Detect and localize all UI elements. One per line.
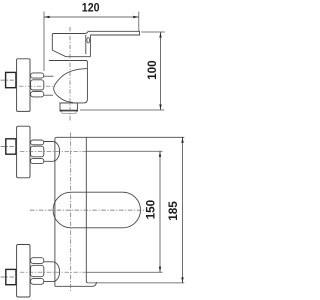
side view: nut axis center line <box>19 85 55 87</box>
front view: 185 bottom extension line <box>88 282 184 284</box>
side view: inlet tube upper edge <box>44 75 54 77</box>
front view: bottom wall flange <box>17 245 30 298</box>
front view: bottom stub axis center line <box>1 276 18 278</box>
side view: lever bar <box>88 31 140 35</box>
side view: wall pipe stub <box>6 72 16 87</box>
side view: outlet spout <box>60 103 78 111</box>
side view: aerator inset <box>62 111 76 113</box>
side view: union nut band 1 <box>31 73 44 78</box>
side view: cartridge housing <box>49 61 88 103</box>
front view: body column bottom edge <box>55 282 97 286</box>
side view: wall flange escutcheon <box>17 59 30 112</box>
front view: top connection axis / 150 extension <box>20 150 163 152</box>
side view: inlet tube lower edge <box>44 94 53 96</box>
extension line bottom of dim 100 <box>80 109 164 111</box>
front view: capsule axis center line <box>30 209 147 211</box>
front view: top wall flange <box>17 126 30 178</box>
front view: top inlet boss arc <box>53 142 60 162</box>
dimension text 185 (rotated) <box>166 201 180 221</box>
side view: stub axis center line <box>1 79 18 81</box>
dimension line 120 with arrows <box>44 16 139 18</box>
front view: top union nut band 3 <box>31 158 44 163</box>
front view: column vertical center line <box>70 133 72 292</box>
side view: union nut band 2 <box>31 80 44 90</box>
dimension text 100 (rotated) <box>145 60 159 80</box>
dimension text 150 (rotated) <box>144 200 158 220</box>
front view: body column right edge <box>86 137 88 283</box>
side view: lever neck right edge <box>89 35 91 57</box>
front view: top union nut band 2 <box>31 146 44 157</box>
side view: lever neck left edge <box>85 35 87 54</box>
extension line left of dim 120 <box>43 12 45 72</box>
dimension line 100 with arrows <box>159 32 161 110</box>
front view: top edge and 185 top extension line <box>55 137 184 139</box>
front view: bottom inlet boss arc <box>53 262 60 282</box>
front view: bottom wall pipe stub <box>6 269 16 284</box>
front view: bottom union nut band 3 <box>31 279 44 285</box>
front view: top wall pipe stub <box>6 139 16 154</box>
side view: body sphere outline <box>54 69 88 103</box>
dimension line 185 with arrows <box>181 137 183 283</box>
front view: bottom union nut band 2 <box>31 265 44 276</box>
front view: top union nut band 1 <box>31 140 44 145</box>
front view: handle capsule <box>53 192 140 228</box>
svg-text:100: 100 <box>145 60 159 80</box>
side view: neck button oval <box>87 38 90 43</box>
dimension text 120 <box>82 1 100 15</box>
side view: vertical center line <box>69 27 71 121</box>
front view: bottom connection axis / 150 extension <box>20 271 163 273</box>
svg-text:185: 185 <box>166 201 180 221</box>
front view: top stub axis center line <box>1 145 18 147</box>
side view: outlet thick bottom edge <box>60 110 77 112</box>
side view: handle cap <box>52 32 90 57</box>
front view: bottom inlet tube <box>44 262 53 282</box>
extension line top of dim 100 <box>141 31 165 33</box>
front view: body column left edge <box>54 139 56 286</box>
extension line right of dim 120 <box>138 12 140 32</box>
side view: union nut band 3 <box>31 92 44 97</box>
dimension line 150 with arrows <box>159 151 161 272</box>
front view: bottom union nut band 1 <box>31 258 44 264</box>
front view: top inlet tube <box>44 142 53 162</box>
svg-text:120: 120 <box>82 1 100 15</box>
svg-text:150: 150 <box>144 200 158 220</box>
